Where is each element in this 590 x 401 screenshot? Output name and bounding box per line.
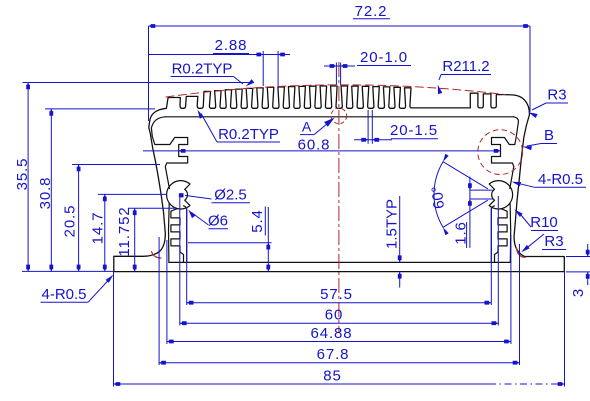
inner floor line: [169, 261, 510, 263]
label R0.2TYP fin valley: [198, 110, 281, 143]
label R10: [514, 210, 558, 232]
svg-text:20-1.5: 20-1.5: [390, 122, 438, 139]
extension 14.7 top: [98, 193, 167, 195]
svg-text:Ø2.5: Ø2.5: [214, 187, 247, 204]
svg-text:67.8: 67.8: [317, 346, 350, 363]
svg-text:30.8: 30.8: [37, 177, 54, 210]
dimension 57.5: [187, 286, 492, 305]
dimension 20-1.0: [324, 49, 411, 85]
label Ø6: [188, 210, 228, 230]
dimension 64.88: [167, 325, 511, 343]
dimension 5.4: [188, 207, 272, 272]
dimension 35.5: [14, 83, 31, 272]
svg-text:14.7: 14.7: [90, 212, 107, 245]
svg-text:60.8: 60.8: [298, 136, 331, 153]
inner ceiling line: [166, 116, 514, 118]
svg-text:72.2: 72.2: [355, 3, 388, 20]
svg-text:4-R0.5: 4-R0.5: [41, 286, 86, 303]
R211.2 reference arc: [166, 85, 505, 97]
right screw boss (Ø6/Ø2.5): [489, 181, 512, 209]
svg-text:R10: R10: [530, 214, 558, 231]
dimension 3: [566, 244, 590, 297]
dimension 85: [114, 368, 565, 386]
svg-text:A: A: [302, 119, 312, 135]
dimension 60.8: [143, 136, 501, 153]
label R0.2TYP fin tip: [171, 61, 255, 87]
detail circle B: [478, 130, 523, 175]
dimension 20-1.5: [354, 110, 438, 144]
svg-text:60: 60: [325, 307, 344, 324]
extension lines bottom left: [114, 196, 187, 387]
svg-text:R3: R3: [547, 87, 566, 104]
svg-text:R211.2: R211.2: [442, 58, 489, 75]
dimension 72.2: [149, 3, 531, 121]
label 4-R0.5 left: [41, 275, 114, 303]
extension 30.8 top: [45, 108, 155, 110]
datum label A: [300, 118, 335, 135]
extension 20.5 top: [72, 164, 160, 166]
red fillet R3 right foot: [517, 249, 526, 258]
dimension 60 degrees: [429, 154, 488, 236]
label B: [523, 127, 557, 150]
dimension 67.8: [159, 346, 519, 365]
svg-text:20.5: 20.5: [62, 205, 79, 238]
label R3 top-right: [529, 87, 569, 119]
svg-text:R0.2TYP: R0.2TYP: [218, 126, 279, 143]
detail circle A: [331, 108, 347, 124]
svg-text:2.88: 2.88: [215, 37, 248, 54]
svg-text:1.5TYP: 1.5TYP: [384, 199, 401, 249]
label R211.2: [438, 58, 491, 94]
red fillet R0.5 left foot: [152, 252, 161, 259]
svg-text:64.88: 64.88: [310, 325, 352, 342]
svg-text:R3: R3: [544, 233, 563, 250]
vertical centerline: [338, 62, 340, 332]
left inner wall and PCB slot: [151, 117, 187, 263]
svg-text:20-1.0: 20-1.0: [360, 49, 408, 66]
label Ø2.5: [179, 187, 250, 204]
svg-text:R0.2TYP: R0.2TYP: [172, 61, 233, 78]
svg-text:B: B: [544, 127, 554, 144]
dimension 11.752: [116, 206, 137, 271]
dimension 30.8: [37, 109, 54, 272]
svg-text:5.4: 5.4: [249, 209, 266, 233]
svg-text:85: 85: [323, 368, 342, 385]
dimension 60: [180, 307, 499, 326]
right serrated rib: [491, 206, 507, 263]
label R3 bottom-right: [521, 233, 566, 252]
extension lines bottom right: [491, 196, 564, 387]
svg-text:57.5: 57.5: [320, 286, 353, 303]
svg-text:60°: 60°: [429, 185, 448, 209]
label 4-R0.5 right: [512, 171, 586, 188]
svg-text:35.5: 35.5: [14, 158, 31, 191]
svg-text:4-R0.5: 4-R0.5: [538, 171, 583, 188]
extrusion outer profile with heatsink fins: [114, 86, 565, 272]
svg-text:3: 3: [570, 288, 587, 297]
svg-text:11.752: 11.752: [116, 206, 133, 256]
extension 35.5 top: [23, 82, 251, 84]
dimension 1.6: [452, 177, 493, 248]
dimension 20.5: [62, 165, 81, 272]
right inner wall and PCB slot (detail B): [492, 117, 519, 263]
dimension 14.7: [90, 194, 107, 271]
dimension 1.5TYP: [384, 196, 402, 288]
svg-text:Ø6: Ø6: [208, 213, 228, 230]
dimension 2.88: [149, 37, 290, 87]
extension 11.752 top: [128, 207, 176, 209]
left serrated rib: [171, 206, 187, 263]
bottom extension line left: [22, 270, 114, 272]
left screw boss (Ø6/Ø2.5): [167, 181, 190, 209]
